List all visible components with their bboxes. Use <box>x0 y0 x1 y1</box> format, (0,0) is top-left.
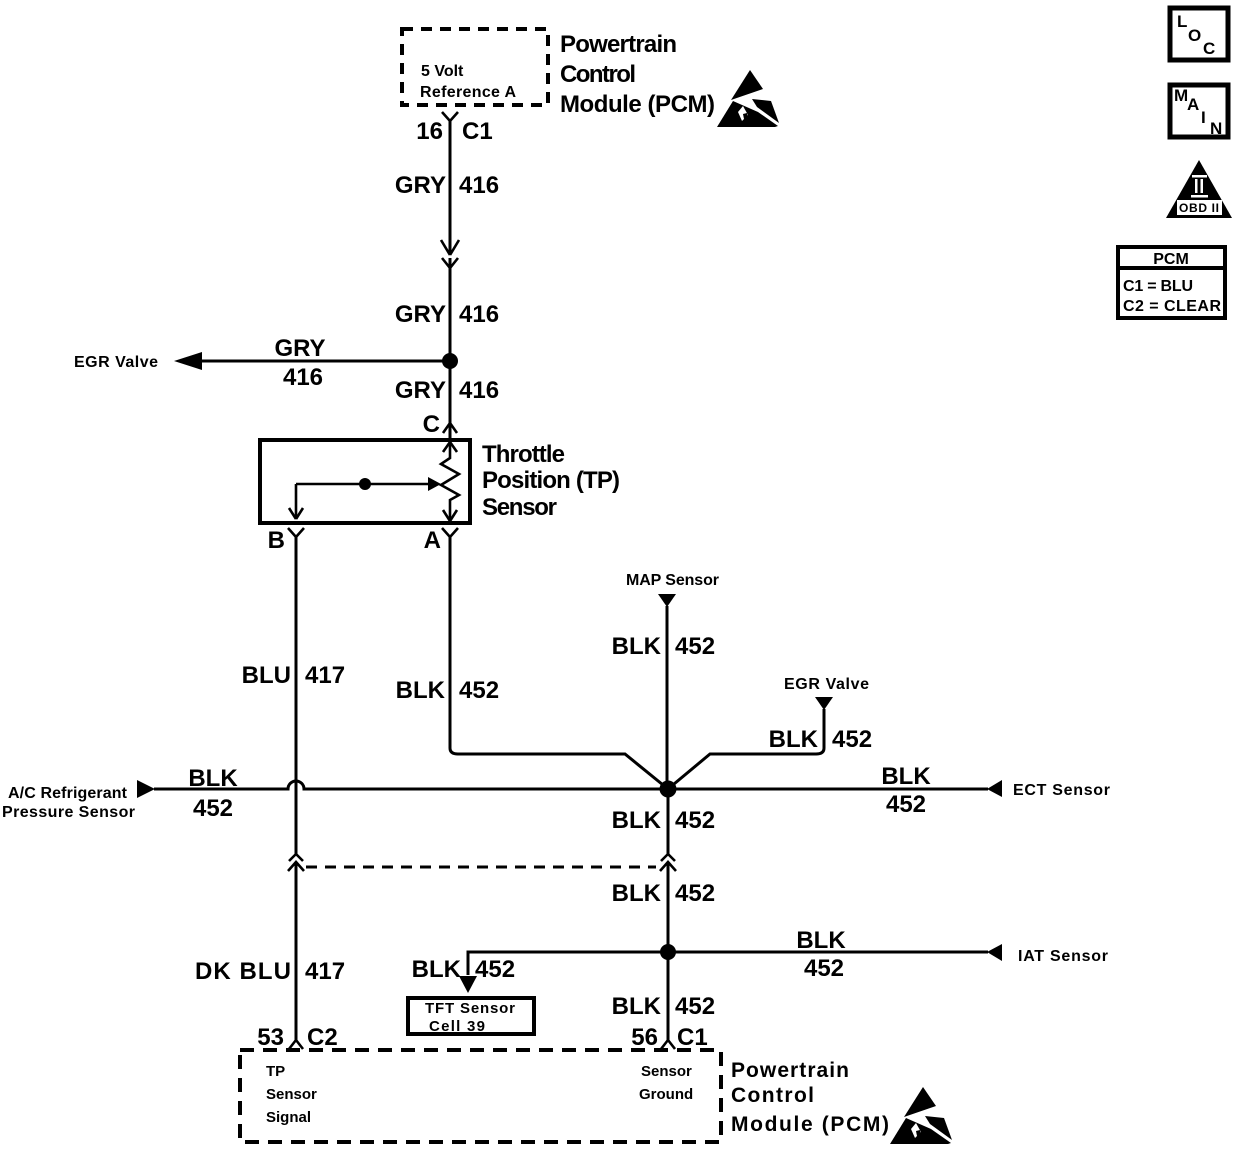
svg-text:EGR Valve: EGR Valve <box>74 354 158 371</box>
svg-text:IAT Sensor: IAT Sensor <box>1018 948 1108 965</box>
svg-text:452: 452 <box>832 726 872 753</box>
svg-text:BLK: BLK <box>412 956 462 983</box>
svg-text:BLK: BLK <box>612 993 662 1020</box>
svg-text:MAP Sensor: MAP Sensor <box>626 572 719 589</box>
svg-text:Position (TP): Position (TP) <box>482 467 620 494</box>
svg-text:BLK: BLK <box>881 763 931 790</box>
svg-text:BLU: BLU <box>242 662 291 689</box>
svg-text:BLK: BLK <box>612 880 662 907</box>
svg-text:A: A <box>424 527 441 554</box>
svg-text:56: 56 <box>631 1024 658 1051</box>
svg-text:Reference A: Reference A <box>420 84 516 101</box>
svg-text:5 Volt: 5 Volt <box>421 63 464 80</box>
svg-text:BLK: BLK <box>612 633 662 660</box>
svg-text:L: L <box>1177 12 1187 31</box>
svg-text:N: N <box>1210 119 1222 138</box>
svg-text:Throttle: Throttle <box>482 441 565 468</box>
svg-text:452: 452 <box>675 633 715 660</box>
svg-text:Sensor: Sensor <box>482 494 557 521</box>
svg-text:O: O <box>1188 26 1201 45</box>
svg-text:Cell 39: Cell 39 <box>429 1018 485 1035</box>
svg-text:452: 452 <box>675 993 715 1020</box>
svg-text:Control: Control <box>560 61 636 88</box>
svg-text:GRY: GRY <box>395 377 446 404</box>
svg-text:C2: C2 <box>307 1024 338 1051</box>
svg-text:GRY: GRY <box>395 172 446 199</box>
svg-text:DK BLU: DK BLU <box>195 958 291 985</box>
svg-text:Powertrain: Powertrain <box>560 31 677 58</box>
svg-text:416: 416 <box>459 301 499 328</box>
svg-text:452: 452 <box>804 955 844 982</box>
svg-text:452: 452 <box>459 677 499 704</box>
svg-text:16: 16 <box>416 118 443 145</box>
svg-text:Powertrain: Powertrain <box>731 1059 849 1082</box>
svg-text:C1: C1 <box>677 1024 708 1051</box>
svg-text:A: A <box>1187 95 1199 114</box>
svg-text:452: 452 <box>475 956 515 983</box>
svg-text:C1 = BLU: C1 = BLU <box>1123 278 1193 295</box>
svg-text:Control: Control <box>731 1084 814 1107</box>
svg-text:416: 416 <box>459 377 499 404</box>
svg-text:417: 417 <box>305 662 345 689</box>
svg-text:EGR Valve: EGR Valve <box>784 676 869 693</box>
svg-text:452: 452 <box>675 807 715 834</box>
svg-text:TFT Sensor: TFT Sensor <box>425 1000 515 1017</box>
svg-text:C: C <box>1203 39 1215 58</box>
svg-text:Pressure Sensor: Pressure Sensor <box>2 804 135 821</box>
svg-text:Module (PCM): Module (PCM) <box>731 1113 889 1136</box>
svg-text:417: 417 <box>305 958 345 985</box>
svg-text:452: 452 <box>193 795 233 822</box>
svg-text:BLK: BLK <box>612 807 662 834</box>
svg-text:BLK: BLK <box>396 677 446 704</box>
svg-text:PCM: PCM <box>1153 251 1189 268</box>
svg-text:BLK: BLK <box>188 765 238 792</box>
svg-text:BLK: BLK <box>769 726 819 753</box>
svg-text:BLK: BLK <box>796 927 846 954</box>
svg-text:416: 416 <box>459 172 499 199</box>
svg-text:C1: C1 <box>462 118 493 145</box>
svg-text:416: 416 <box>283 364 323 391</box>
svg-text:ECT Sensor: ECT Sensor <box>1013 782 1110 799</box>
svg-text:53: 53 <box>257 1024 284 1051</box>
svg-text:Sensor: Sensor <box>641 1063 692 1080</box>
svg-text:452: 452 <box>886 791 926 818</box>
svg-text:452: 452 <box>675 880 715 907</box>
svg-text:C: C <box>423 411 440 438</box>
svg-text:GRY: GRY <box>395 301 446 328</box>
svg-text:GRY: GRY <box>274 335 325 362</box>
svg-text:TP: TP <box>266 1063 285 1080</box>
svg-text:Ground: Ground <box>639 1086 693 1103</box>
svg-text:Module (PCM): Module (PCM) <box>560 91 715 118</box>
svg-text:B: B <box>268 527 285 554</box>
svg-text:OBD II: OBD II <box>1179 201 1219 215</box>
svg-text:Sensor: Sensor <box>266 1086 317 1103</box>
svg-text:I: I <box>1201 108 1206 127</box>
svg-text:C2 = CLEAR: C2 = CLEAR <box>1123 298 1221 315</box>
svg-text:Signal: Signal <box>266 1109 311 1126</box>
svg-text:A/C Refrigerant: A/C Refrigerant <box>8 785 128 802</box>
